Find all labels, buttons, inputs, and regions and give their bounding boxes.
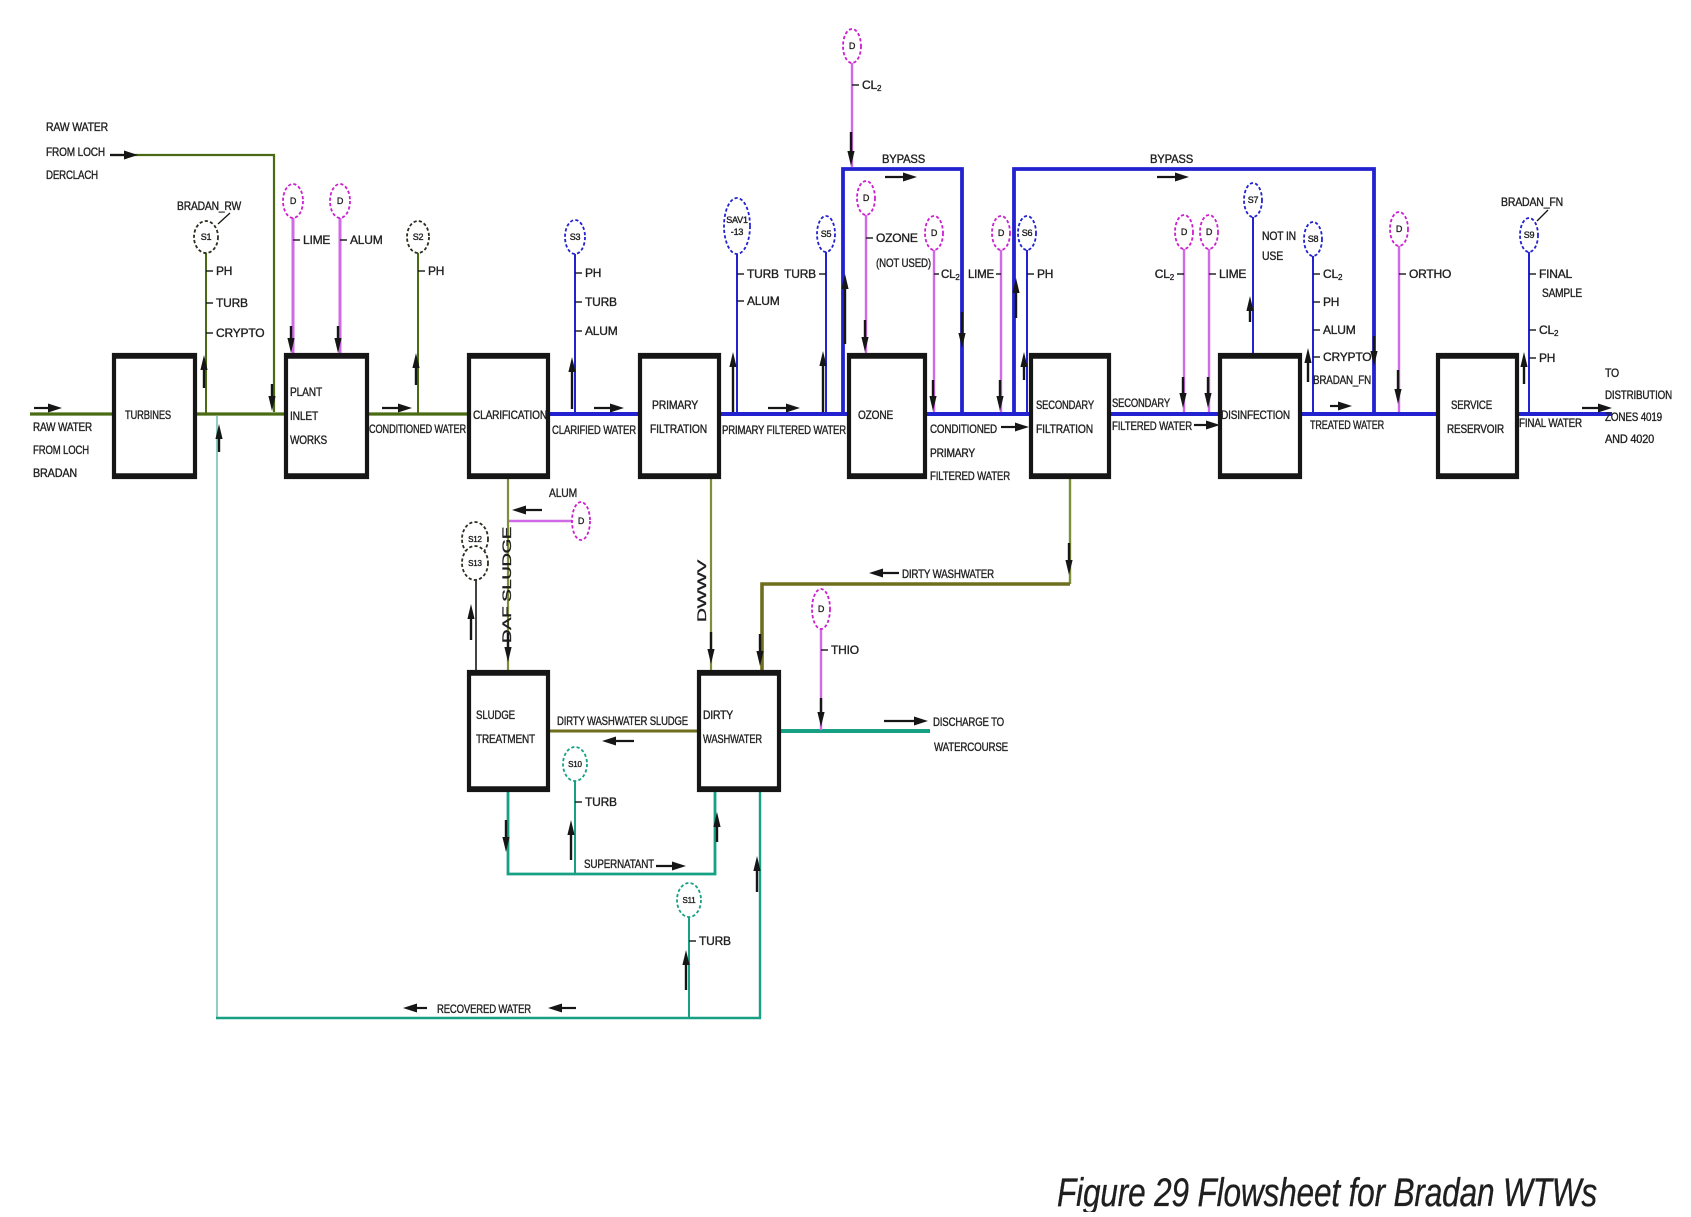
wire discharge to watercourse (teal) (779, 729, 930, 733)
wire sample stub S5 (blue) (825, 251, 827, 413)
arrow up S7 sample (1246, 296, 1253, 311)
svg-text:DIRTY: DIRTY (703, 708, 733, 722)
svg-text:SAMPLE: SAMPLE (1542, 286, 1582, 300)
wire supernatant line (teal) (508, 789, 715, 874)
arrow treated water (1338, 402, 1352, 411)
arrow recovered water mid (548, 1004, 562, 1013)
wire sample stub S1 (205, 252, 207, 413)
node SAV1-13 (724, 198, 750, 254)
wire dose line CL2 into bypass 1 (851, 63, 853, 167)
arrow raw water inlet (48, 404, 62, 413)
svg-text:FILTERED WATER: FILTERED WATER (1112, 419, 1192, 433)
svg-text:DISCHARGE TO: DISCHARGE TO (933, 715, 1004, 729)
label S5 TURB (784, 267, 826, 281)
node D ALUM plant inlet (330, 184, 350, 218)
wire sample stub S3 (blue) (574, 253, 576, 413)
arrow recovered water left end (403, 1004, 417, 1013)
svg-text:ALUM: ALUM (1323, 323, 1356, 337)
wire DWWV line from primary filtration (710, 477, 712, 671)
svg-text:D: D (998, 228, 1005, 238)
svg-text:BRADAN_FN: BRADAN_FN (1313, 373, 1371, 387)
svg-text:BYPASS: BYPASS (882, 152, 925, 166)
wire dose line CL2 after ozone (933, 250, 935, 412)
label CL2 bypass (852, 78, 882, 93)
label CL2 disinfection (1155, 267, 1184, 282)
svg-text:D: D (849, 41, 856, 51)
arrow up S11 sample (682, 950, 689, 965)
svg-text:CONDITIONED WATER: CONDITIONED WATER (369, 422, 466, 436)
wire sample stub S9 (blue) (1528, 252, 1530, 413)
arrow down THIO dose (817, 712, 824, 727)
box DISINFECTION (1219, 355, 1301, 477)
arrow down LIME disinfection (1204, 393, 1211, 408)
node D CL2 bypass (843, 29, 861, 63)
arrow down washwater corner (756, 651, 763, 666)
svg-text:ALUM: ALUM (747, 294, 780, 308)
arrow up S3 sample (568, 357, 575, 372)
node S11 (677, 883, 701, 917)
svg-text:PLANT: PLANT (290, 385, 323, 399)
box SECONDARY FILTRATION (1030, 355, 1110, 477)
arrow down CL2 after ozone (929, 396, 936, 411)
svg-text:THIO: THIO (831, 643, 859, 657)
svg-text:CL2: CL2 (1323, 267, 1343, 282)
label S9 CL2 (1529, 323, 1559, 338)
svg-text:OZONE: OZONE (858, 408, 893, 422)
svg-text:DIRTY WASHWATER: DIRTY WASHWATER (902, 567, 994, 581)
arrow supernatant flow (672, 862, 686, 871)
node D LIME plant inlet (283, 184, 303, 218)
arrow down LIME dose (287, 338, 294, 353)
label S9 FINAL SAMPLE (1529, 267, 1573, 281)
label S1 TURB (206, 296, 248, 310)
wire sample stub S2 (417, 252, 419, 413)
label ALUM plant inlet (340, 233, 383, 247)
svg-text:ALUM: ALUM (549, 486, 577, 500)
node D ALUM into DAF (572, 502, 590, 540)
label LIME after ozone (968, 269, 1001, 281)
node S6 (1018, 216, 1036, 250)
svg-text:S9: S9 (1524, 230, 1535, 240)
box PRIMARY FILTRATION (639, 355, 720, 477)
arrow up recovered into main (215, 424, 222, 439)
label SAV1 ALUM (737, 294, 780, 308)
arrow alum into DAF line (512, 506, 526, 515)
node S3 (565, 220, 585, 254)
svg-text:FROM LOCH: FROM LOCH (46, 145, 105, 159)
label LIME disinfection (1209, 267, 1246, 281)
label S2 PH (418, 264, 444, 278)
svg-text:CRYPTO: CRYPTO (216, 326, 264, 340)
svg-text:TREATMENT: TREATMENT (476, 732, 536, 746)
svg-text:RAW WATER: RAW WATER (46, 120, 108, 134)
node D CL2 after ozone (925, 216, 943, 250)
svg-text:S3: S3 (570, 232, 581, 242)
svg-text:OZONE: OZONE (876, 231, 918, 245)
svg-text:D: D (578, 516, 585, 526)
svg-text:S8: S8 (1308, 234, 1319, 244)
svg-text:D: D (863, 193, 870, 203)
svg-text:DWWV: DWWV (695, 560, 709, 622)
svg-text:S7: S7 (1248, 195, 1259, 205)
wire ALUM dose into DAF sludge line (509, 520, 572, 522)
svg-text:SLUDGE: SLUDGE (476, 708, 515, 722)
arrow up bypass1 leg (841, 274, 848, 289)
label S3 TURB (575, 295, 617, 309)
label S3 ALUM (575, 324, 618, 338)
wire washwater recovery drop line (teal) (759, 790, 761, 1018)
node D THIO (812, 589, 830, 629)
box SERVICE RESERVOIR (1437, 355, 1518, 477)
label S3 PH (575, 266, 601, 280)
arrow final water to distribution (1598, 404, 1612, 413)
wire dirty washwater sludge link (548, 730, 699, 733)
node S12 (462, 522, 488, 556)
svg-text:D: D (818, 604, 825, 614)
svg-text:-13: -13 (731, 227, 744, 237)
label S8 CRYPTO (1313, 350, 1371, 364)
svg-text:LIME: LIME (1219, 267, 1246, 281)
svg-text:TURB: TURB (216, 296, 248, 310)
arrow up S5 sample (819, 351, 826, 366)
wire dose line LIME before disinfection (1208, 249, 1210, 412)
box OZONE (848, 355, 926, 477)
svg-text:D: D (1181, 227, 1188, 237)
arrow up supernatant into washwater box (713, 812, 720, 827)
label S6 PH (1027, 267, 1053, 281)
arrow down supernatant leg (502, 837, 509, 852)
svg-text:PH: PH (428, 264, 444, 278)
arrow down bypass2 right leg (1370, 351, 1377, 366)
svg-text:INLET: INLET (290, 409, 319, 423)
wire dirty washwater return line (olive) (762, 584, 1070, 671)
svg-text:NOT IN: NOT IN (1262, 229, 1296, 243)
svg-text:DIRTY WASHWATER SLUDGE: DIRTY WASHWATER SLUDGE (557, 714, 688, 728)
svg-text:(NOT USED): (NOT USED) (876, 256, 931, 270)
svg-text:SAV1: SAV1 (726, 215, 748, 225)
label S10 TURB (575, 795, 617, 809)
svg-text:DISTRIBUTION: DISTRIBUTION (1605, 388, 1672, 402)
svg-text:D: D (1206, 227, 1213, 237)
svg-text:PH: PH (1037, 267, 1053, 281)
wire recovered water line (teal) (216, 1017, 761, 1020)
node D ORTHO (1390, 212, 1408, 246)
label OZONE not used (866, 231, 918, 245)
arrow down ORTHO dose (1394, 389, 1401, 404)
label S8 ALUM (1313, 323, 1356, 337)
wire dose line LIME at plant inlet (292, 218, 295, 354)
svg-text:FROM LOCH: FROM LOCH (33, 443, 89, 457)
arrow up S10 sample (567, 820, 574, 835)
svg-text:PH: PH (216, 264, 232, 278)
svg-text:S6: S6 (1022, 228, 1033, 238)
node D CL2 disinfection (1175, 215, 1193, 249)
svg-text:BRADAN_RW: BRADAN_RW (177, 199, 242, 213)
arrow down DWWV (707, 649, 714, 664)
arrow discharge to watercourse (914, 717, 928, 726)
svg-text:DAF SLUDGE: DAF SLUDGE (500, 527, 514, 643)
wire dose line CL2 before disinfection (1183, 249, 1185, 412)
svg-text:BYPASS: BYPASS (1150, 152, 1193, 166)
wire raw water from Loch Derclach top line (110, 155, 274, 412)
wire dose line ALUM at plant inlet (339, 218, 342, 354)
svg-text:PH: PH (1539, 351, 1555, 365)
wire washout line from secondary filtration (1069, 477, 1071, 584)
svg-text:CL2: CL2 (1539, 323, 1559, 338)
wire S12/S13 sample line (475, 580, 477, 671)
svg-text:S13: S13 (468, 559, 482, 568)
svg-text:CL2: CL2 (941, 269, 960, 282)
svg-text:FILTRATION: FILTRATION (1036, 422, 1093, 436)
label S1 PH (206, 264, 232, 278)
svg-text:CONDITIONED: CONDITIONED (930, 422, 997, 436)
wire bypass 1 around ozone (blue) (843, 169, 962, 412)
node D LIME after ozone (992, 216, 1010, 250)
svg-text:AND 4020: AND 4020 (1605, 432, 1654, 446)
svg-text:BRADAN_FN: BRADAN_FN (1501, 195, 1563, 209)
svg-text:S5: S5 (821, 229, 832, 239)
svg-text:TURBINES: TURBINES (125, 408, 171, 422)
svg-text:CRYPTO: CRYPTO (1323, 350, 1371, 364)
arrow down bypass1 right leg (958, 333, 965, 348)
svg-text:TO: TO (1605, 366, 1619, 380)
node S13 (462, 546, 488, 580)
svg-text:RESERVOIR: RESERVOIR (1447, 422, 1504, 436)
svg-text:Figure 29 Flowsheet for Bradan: Figure 29 Flowsheet for Bradan WTWs (1057, 1171, 1597, 1212)
arrow down Derclach into main (268, 396, 275, 411)
svg-text:RAW WATER: RAW WATER (33, 420, 92, 434)
wire main treated water line (blue) (548, 412, 1612, 416)
svg-text:SECONDARY: SECONDARY (1036, 398, 1094, 412)
svg-text:SECONDARY: SECONDARY (1112, 396, 1170, 410)
label CL2 after ozone (934, 269, 960, 282)
svg-text:BRADAN: BRADAN (33, 466, 77, 480)
arrow down DAF sludge (504, 647, 511, 662)
wire sample stub S7 (blue) (1252, 217, 1254, 356)
arrow primary filtered water (786, 404, 800, 413)
arrow dirty washwater return (869, 569, 883, 578)
arrow secondary filtered water (1206, 421, 1220, 430)
svg-text:FINAL WATER: FINAL WATER (1519, 416, 1582, 430)
box CLARIFICATION (468, 355, 549, 477)
svg-text:CLARIFIED WATER: CLARIFIED WATER (552, 423, 636, 437)
svg-text:TURB: TURB (585, 795, 617, 809)
svg-text:TURB: TURB (784, 267, 816, 281)
box SLUDGE TREATMENT (468, 672, 549, 790)
box TURBINES (113, 355, 196, 477)
arrow up S9 sample (1520, 352, 1527, 367)
svg-text:LIME: LIME (303, 233, 330, 247)
label LIME plant inlet (293, 233, 330, 247)
arrow Derclach feed (124, 151, 138, 160)
arrow down secondary filtration washout (1065, 560, 1072, 575)
svg-text:S10: S10 (568, 760, 582, 769)
label THIO (821, 643, 859, 657)
wire dose line ORTHO (1398, 246, 1400, 412)
arrow up SAV1 sample (729, 352, 736, 367)
wire bypass 2 around disinfection (blue) (1014, 169, 1374, 412)
arrow down CL2 bypass dose (847, 151, 854, 166)
label S8 CL2 (1313, 267, 1343, 282)
svg-text:RECOVERED WATER: RECOVERED WATER (437, 1002, 531, 1016)
svg-text:D: D (931, 228, 938, 238)
arrow up washwater drop line (753, 856, 760, 871)
svg-text:FILTERED WATER: FILTERED WATER (930, 469, 1010, 483)
svg-text:PRIMARY: PRIMARY (930, 446, 975, 460)
arrow dirty washwater sludge (602, 737, 616, 746)
arrow clarified water (610, 404, 624, 413)
svg-text:SUPERNATANT: SUPERNATANT (584, 857, 655, 871)
wire dose line LIME after ozone (1000, 250, 1002, 412)
node S9 BRADAN_FN (1520, 218, 1538, 252)
svg-text:DERCLACH: DERCLACH (46, 168, 98, 182)
node D LIME disinfection (1200, 215, 1218, 249)
arrow bypass 1 flow (903, 173, 917, 182)
arrow down LIME after ozone (996, 396, 1003, 411)
wire sample stub S8 (blue) (1312, 256, 1314, 413)
arrow up S12 sample (467, 604, 474, 619)
svg-text:PRIMARY: PRIMARY (652, 398, 698, 412)
label S11 TURB (689, 934, 731, 948)
node S8 (1304, 222, 1322, 256)
wire DAF sludge line from clarification (507, 477, 509, 671)
arrow up S2 sample (412, 353, 419, 368)
arrow conditioned water (398, 404, 412, 413)
svg-text:D: D (1396, 224, 1403, 234)
svg-text:PRIMARY FILTERED WATER: PRIMARY FILTERED WATER (722, 423, 846, 437)
svg-text:S12: S12 (468, 535, 482, 544)
svg-text:USE: USE (1262, 249, 1283, 263)
label S9 PH (1529, 351, 1555, 365)
node D OZONE (857, 181, 875, 215)
arrow up bypass2 leg (1012, 278, 1019, 293)
arrow up S6 sample (1020, 352, 1027, 367)
svg-text:D: D (290, 196, 297, 206)
svg-text:CL2: CL2 (1155, 267, 1175, 282)
label ORTHO (1399, 267, 1451, 281)
svg-text:SERVICE: SERVICE (1451, 398, 1492, 412)
svg-text:CL2: CL2 (862, 78, 882, 93)
label S1 CRYPTO (206, 326, 264, 340)
svg-text:TURB: TURB (699, 934, 731, 948)
svg-text:S2: S2 (413, 232, 424, 242)
node S2 (407, 221, 429, 253)
svg-text:S1: S1 (201, 232, 212, 242)
svg-text:S11: S11 (682, 896, 696, 905)
svg-text:TURB: TURB (747, 267, 779, 281)
wire main raw water line (olive) (30, 412, 552, 415)
svg-text:WASHWATER: WASHWATER (703, 732, 762, 746)
arrow down ozone dose (861, 337, 868, 352)
svg-text:LIME: LIME (968, 269, 995, 281)
node S5 (817, 216, 835, 252)
arrow down ALUM dose (334, 338, 341, 353)
node S1 BRADAN_RW (194, 221, 218, 253)
svg-text:ORTHO: ORTHO (1409, 267, 1451, 281)
node S7 (1244, 183, 1262, 217)
arrow up S1 sample (200, 355, 207, 370)
arrow conditioned primary (1015, 423, 1029, 432)
box DIRTY WASHWATER (698, 672, 780, 790)
svg-text:WORKS: WORKS (290, 433, 327, 447)
svg-text:DISINFECTION: DISINFECTION (1221, 408, 1290, 422)
svg-text:ALUM: ALUM (350, 233, 383, 247)
svg-text:TURB: TURB (585, 295, 617, 309)
svg-text:FINAL: FINAL (1539, 267, 1573, 281)
wire recovered water riser (teal) (216, 416, 218, 1018)
wire THIO dose line (820, 629, 822, 730)
svg-text:CLARIFICATION: CLARIFICATION (473, 408, 547, 422)
wire sample stub SAV1-13 (blue) (736, 254, 738, 413)
wire dose line ozone (not used) (865, 215, 867, 354)
box PLANT INLET WORKS (285, 355, 368, 477)
wire sample stub S10 (teal) (574, 781, 576, 873)
arrow up S8 sample (1304, 348, 1311, 363)
svg-text:ALUM: ALUM (585, 324, 618, 338)
svg-text:FILTRATION: FILTRATION (650, 422, 707, 436)
arrow down CL2 disinfection (1179, 393, 1186, 408)
label S8 PH (1313, 295, 1339, 309)
svg-text:TREATED WATER: TREATED WATER (1310, 418, 1384, 432)
label SAV1 TURB (737, 267, 779, 281)
wire sample stub S6 (blue) (1026, 250, 1028, 413)
svg-text:PH: PH (1323, 295, 1339, 309)
wire sample stub S11 (teal) (688, 917, 690, 1017)
node S10 (563, 747, 587, 781)
svg-text:PH: PH (585, 266, 601, 280)
svg-text:WATERCOURSE: WATERCOURSE (934, 740, 1008, 754)
arrow bypass 2 flow (1175, 173, 1189, 182)
svg-text:D: D (337, 196, 344, 206)
svg-text:ZONES 4019: ZONES 4019 (1605, 410, 1662, 424)
